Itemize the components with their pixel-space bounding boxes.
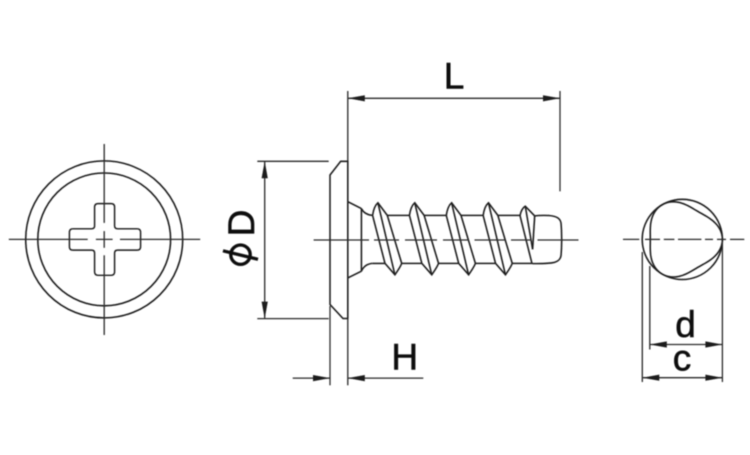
svg-text:H: H bbox=[391, 336, 418, 377]
svg-text:c: c bbox=[673, 338, 692, 379]
svg-text:D: D bbox=[221, 210, 262, 237]
svg-text:L: L bbox=[444, 56, 465, 97]
